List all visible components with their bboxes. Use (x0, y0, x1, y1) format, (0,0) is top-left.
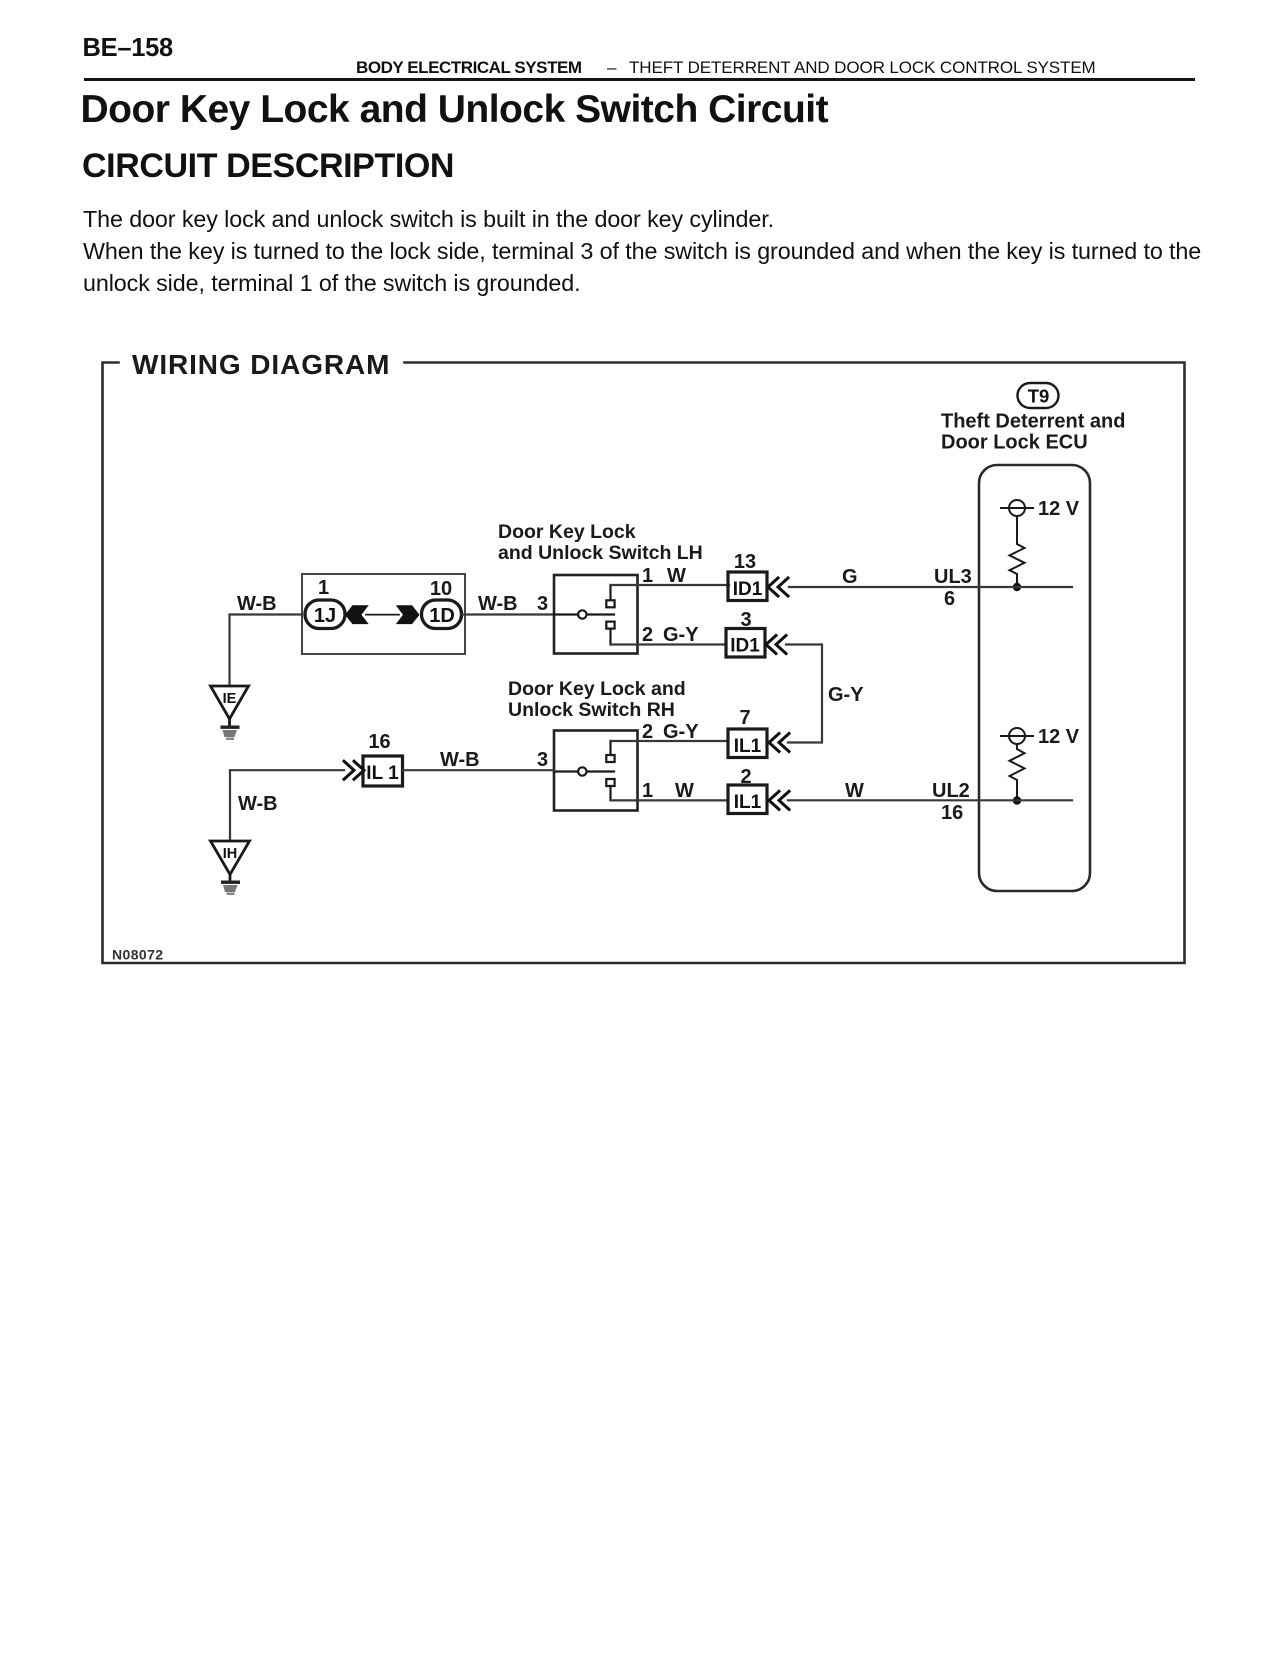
svg-text:12 V: 12 V (1038, 726, 1080, 748)
junction block 1J 1D frame (302, 574, 465, 654)
svg-text:G: G (842, 566, 858, 588)
wiring diagram frame (103, 363, 1185, 964)
pin 1 label (318, 577, 329, 599)
svg-text:G-Y: G-Y (663, 624, 699, 646)
svg-text:IL1: IL1 (734, 792, 762, 813)
svg-text:2: 2 (642, 721, 653, 743)
node junction top (1013, 583, 1021, 591)
wire W to ECU pin UL2 (788, 799, 1072, 801)
svg-text:10: 10 (430, 578, 452, 600)
page number BE-158 (83, 34, 173, 63)
pin 3 label (740, 609, 751, 631)
connector IL1 pin2 (728, 785, 767, 814)
door key lock and unlock switch LH box (554, 575, 638, 654)
pin 2 label (740, 766, 751, 788)
svg-text:W: W (675, 780, 694, 802)
door key lock and unlock switch RH box (554, 731, 638, 811)
svg-text:IH: IH (223, 846, 238, 862)
connector 1D (422, 600, 462, 629)
labels 1 W RH (642, 780, 694, 802)
svg-text:W: W (667, 565, 686, 587)
wire pin1 W RH (611, 799, 729, 801)
label W-B left of 1J (237, 593, 277, 615)
labels 1 W (642, 565, 686, 587)
wire G to ECU pin UL3 (789, 586, 1072, 588)
svg-text:ID1: ID1 (730, 636, 760, 657)
pin 3 label LH (537, 593, 548, 615)
svg-text:UL2: UL2 (932, 780, 970, 802)
header rule (84, 78, 1195, 81)
wire pin2 G-Y RH (611, 740, 729, 742)
svg-text:Unlock Switch RH: Unlock Switch RH (508, 699, 675, 721)
connector tag T9 (1018, 383, 1059, 408)
12V supply symbol bottom (1001, 728, 1033, 744)
svg-text:T9: T9 (1028, 386, 1050, 407)
svg-text:UL3: UL3 (934, 566, 972, 588)
connector ID1 pin13 (728, 572, 767, 601)
switch LH internals (554, 585, 615, 645)
switch label LH (498, 521, 703, 564)
svg-text:and Unlock Switch LH: and Unlock Switch LH (498, 542, 703, 564)
svg-text:Door Lock ECU: Door Lock ECU (941, 432, 1088, 454)
chevrons IL1 pin2 (769, 791, 789, 809)
svg-text:1: 1 (642, 780, 653, 802)
wire W-B 1D to switch LH (462, 613, 554, 615)
connector 1J (305, 600, 345, 629)
label W-B (478, 593, 518, 615)
svg-text:IL 1: IL 1 (366, 763, 399, 784)
svg-text:12 V: 12 V (1038, 498, 1080, 520)
svg-text:16: 16 (368, 731, 390, 753)
pin 3 label RH (537, 749, 548, 771)
connector ID1 pin3 (726, 629, 765, 658)
wire W-B into IL1 pin16 (230, 770, 344, 841)
section heading (82, 147, 454, 186)
running header (356, 58, 582, 78)
wiring diagram title (132, 349, 390, 380)
12 V label bottom (1038, 726, 1080, 748)
svg-text:IE: IE (223, 691, 237, 707)
labels 2 G-Y (642, 624, 699, 646)
chevrons IL1 pin7 (769, 734, 789, 752)
wire G-Y link ID1 to IL1 (786, 645, 822, 743)
pin 16 label (368, 731, 390, 753)
svg-text:Door Key Lock and: Door Key Lock and (508, 678, 686, 700)
connector IL1 pin16 left (363, 756, 403, 786)
svg-text:IL1: IL1 (734, 736, 762, 757)
svg-text:Door Key Lock: Door Key Lock (498, 521, 636, 543)
node junction bottom (1013, 796, 1021, 804)
resistor R2 (1010, 744, 1025, 801)
12V supply symbol top (1001, 500, 1033, 516)
svg-text:G-Y: G-Y (663, 721, 699, 743)
resistor R1 (1010, 516, 1025, 587)
svg-text:G-Y: G-Y (828, 684, 864, 706)
12 V label top (1038, 498, 1080, 520)
label UL2 pin 16 (932, 780, 970, 824)
svg-text:1J: 1J (314, 605, 336, 627)
svg-text:Theft Deterrent and: Theft Deterrent and (941, 411, 1125, 433)
chevrons ID1 pin3 (766, 636, 786, 654)
ground IH (211, 841, 250, 881)
svg-text:3: 3 (537, 749, 548, 771)
pin 10 label (430, 578, 452, 600)
svg-text:WIRING DIAGRAM: WIRING DIAGRAM (132, 349, 390, 380)
svg-text:N08072: N08072 (112, 947, 163, 963)
svg-text:1D: 1D (429, 605, 455, 627)
svg-text:13: 13 (734, 551, 756, 573)
mating arrows between 1J and 1D (345, 605, 420, 624)
labels 2 G-Y RH (642, 721, 699, 743)
figure number N08072 (112, 947, 163, 963)
label W right (845, 780, 864, 802)
svg-text:W-B: W-B (440, 749, 480, 771)
connector IL1 pin7 (728, 729, 767, 758)
svg-text:7: 7 (739, 707, 750, 729)
svg-text:16: 16 (941, 802, 963, 824)
svg-text:W-B: W-B (478, 593, 518, 615)
body paragraph (83, 203, 1201, 300)
switch label RH (508, 678, 686, 721)
ECU label (941, 411, 1125, 454)
label W-B lower left (238, 793, 278, 815)
pin 13 label (734, 551, 756, 573)
svg-text:6: 6 (944, 588, 955, 610)
pin 7 label (739, 707, 750, 729)
label UL3 pin 6 (934, 566, 972, 610)
chevrons ID1 pin13 (768, 578, 788, 596)
svg-text:1: 1 (318, 577, 329, 599)
svg-text:1: 1 (642, 565, 653, 587)
chevrons IL1 pin16 (344, 761, 364, 779)
svg-text:2: 2 (740, 766, 751, 788)
svg-text:3: 3 (537, 593, 548, 615)
label G (842, 566, 858, 588)
wire W-B IL1 to switch RH (403, 769, 555, 771)
ground IE (211, 686, 249, 726)
wire pin1 W LH (611, 584, 730, 586)
page title (81, 88, 829, 132)
wire W-B into 1J (230, 615, 303, 686)
svg-text:W-B: W-B (237, 593, 277, 615)
svg-text:2: 2 (642, 624, 653, 646)
svg-text:ID1: ID1 (733, 579, 763, 600)
svg-text:3: 3 (740, 609, 751, 631)
svg-text:W-B: W-B (238, 793, 278, 815)
label W-B mid (440, 749, 480, 771)
svg-text:W: W (845, 780, 864, 802)
wire pin2 G-Y LH (611, 643, 727, 645)
switch RH internals (554, 741, 615, 800)
ECU U1 box (979, 465, 1090, 891)
label G-Y vertical link (828, 684, 864, 706)
